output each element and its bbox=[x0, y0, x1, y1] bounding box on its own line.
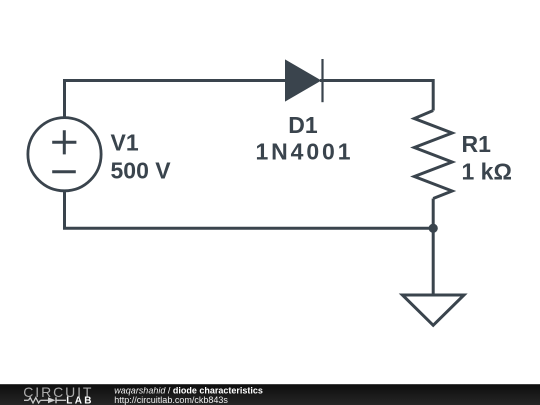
junction node bbox=[429, 224, 438, 233]
svg-text:1 kΩ: 1 kΩ bbox=[462, 159, 512, 185]
logo resistor bbox=[29, 398, 41, 403]
ground bbox=[402, 295, 464, 325]
logo wire bbox=[40, 399, 48, 401]
svg-text:V1: V1 bbox=[111, 130, 139, 156]
logo wire bbox=[24, 399, 29, 401]
diode D1 bbox=[286, 59, 323, 102]
svg-text:http://circuitlab.com/ckb843s: http://circuitlab.com/ckb843s bbox=[114, 395, 228, 405]
logo diode bbox=[48, 397, 56, 403]
svg-text:LAB: LAB bbox=[66, 395, 93, 405]
voltage source V1 bbox=[28, 118, 101, 191]
svg-text:1N4001: 1N4001 bbox=[256, 138, 351, 164]
wire from source bottom to bottom rail bbox=[65, 191, 434, 228]
svg-text:500 V: 500 V bbox=[111, 158, 172, 184]
svg-text:D1: D1 bbox=[288, 112, 318, 138]
wire from diode cathode to right drop bbox=[320, 81, 433, 111]
footer bar bbox=[0, 384, 540, 405]
svg-text:R1: R1 bbox=[462, 131, 492, 157]
resistor R1 bbox=[414, 111, 452, 199]
wire top-left segment and left drop to source bbox=[65, 81, 286, 118]
logo wire bbox=[56, 399, 66, 401]
wire resistor bottom to ground bbox=[432, 199, 435, 296]
